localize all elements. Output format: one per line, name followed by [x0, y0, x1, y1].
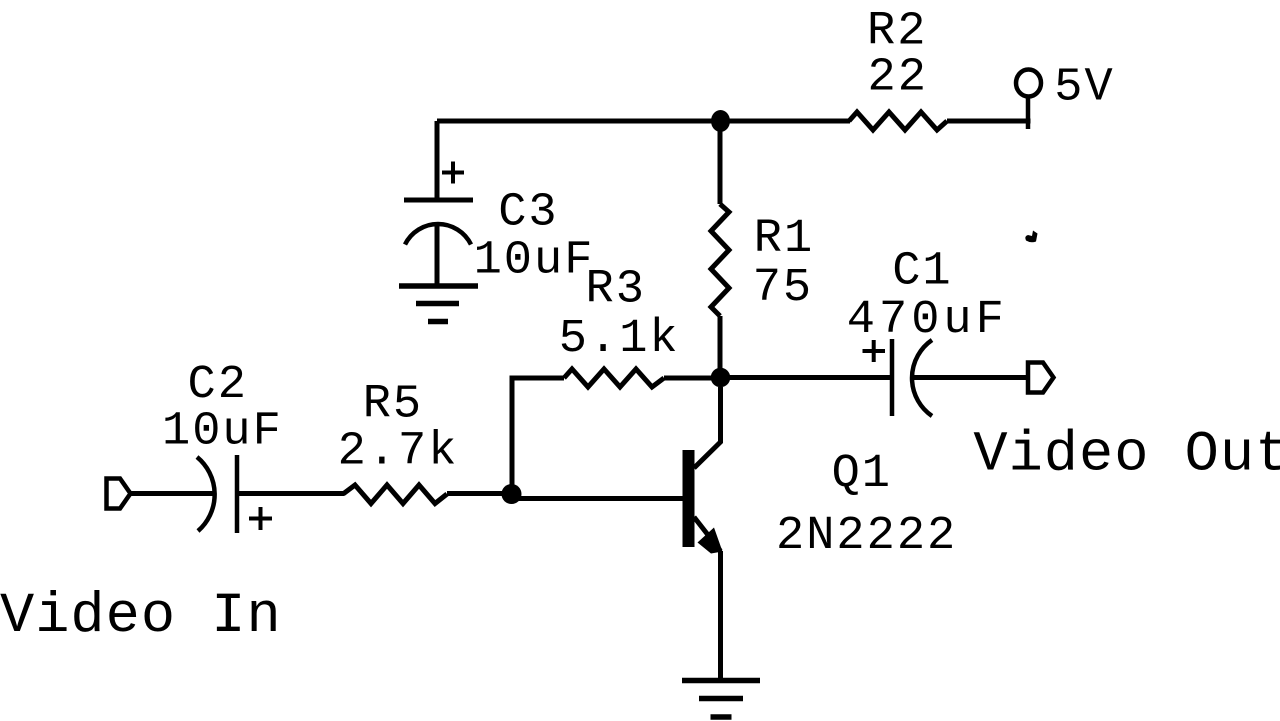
svg-text:2.7k: 2.7k — [338, 425, 459, 478]
resistor R3 — [564, 369, 664, 387]
transistor Q1 — [683, 387, 723, 554]
wire emitter lead — [718, 551, 723, 679]
svg-text:C2: C2 — [188, 359, 248, 412]
svg-text:R3: R3 — [586, 263, 646, 316]
stray mark — [1025, 231, 1037, 243]
wire R1 bottom lead — [718, 316, 723, 377]
capacitor C2 — [197, 455, 272, 533]
wire feedback riser — [512, 378, 564, 494]
wire collector to C1 — [720, 375, 890, 380]
svg-text:10uF: 10uF — [162, 405, 283, 458]
node rail-collector junction — [711, 110, 730, 132]
wire R5 to base junction — [447, 491, 512, 496]
svg-text:75: 75 — [753, 262, 813, 315]
capacitor C3 — [404, 121, 473, 286]
node collector junction — [711, 368, 731, 388]
wire top rail right segment — [947, 119, 1031, 124]
svg-text:10uF: 10uF — [474, 235, 595, 288]
resistor R5 — [343, 485, 447, 504]
ground Q1 — [682, 681, 760, 718]
svg-text:22: 22 — [868, 51, 928, 104]
node base junction — [502, 484, 522, 504]
terminal Video Out — [1028, 363, 1054, 393]
svg-text:C1: C1 — [892, 245, 952, 298]
terminal Video In — [107, 479, 131, 509]
svg-text:5V: 5V — [1054, 62, 1114, 115]
svg-text:Video In: Video In — [0, 585, 282, 649]
svg-text:R1: R1 — [754, 213, 814, 266]
svg-text:470uF: 470uF — [847, 294, 1008, 347]
wire top rail left segment — [437, 119, 850, 124]
resistor R1 — [711, 204, 729, 316]
svg-text:R5: R5 — [363, 379, 423, 432]
svg-text:2N2222: 2N2222 — [776, 510, 957, 563]
svg-text:Q1: Q1 — [832, 448, 892, 501]
wire R1 top lead — [718, 121, 723, 204]
wire C1 to output — [913, 375, 1028, 380]
wire input lead — [131, 491, 215, 496]
resistor R2 — [849, 112, 947, 130]
terminal 5V — [1016, 70, 1041, 130]
ground C3 — [399, 286, 478, 322]
svg-text:5.1k: 5.1k — [559, 313, 680, 366]
svg-text:Video Out: Video Out — [973, 423, 1280, 487]
capacitor C1 — [863, 339, 933, 416]
wire base — [512, 496, 684, 501]
wire R3 to collector junction — [664, 376, 720, 381]
svg-text:C3: C3 — [498, 187, 558, 240]
wire C2 to R5 — [239, 491, 344, 496]
